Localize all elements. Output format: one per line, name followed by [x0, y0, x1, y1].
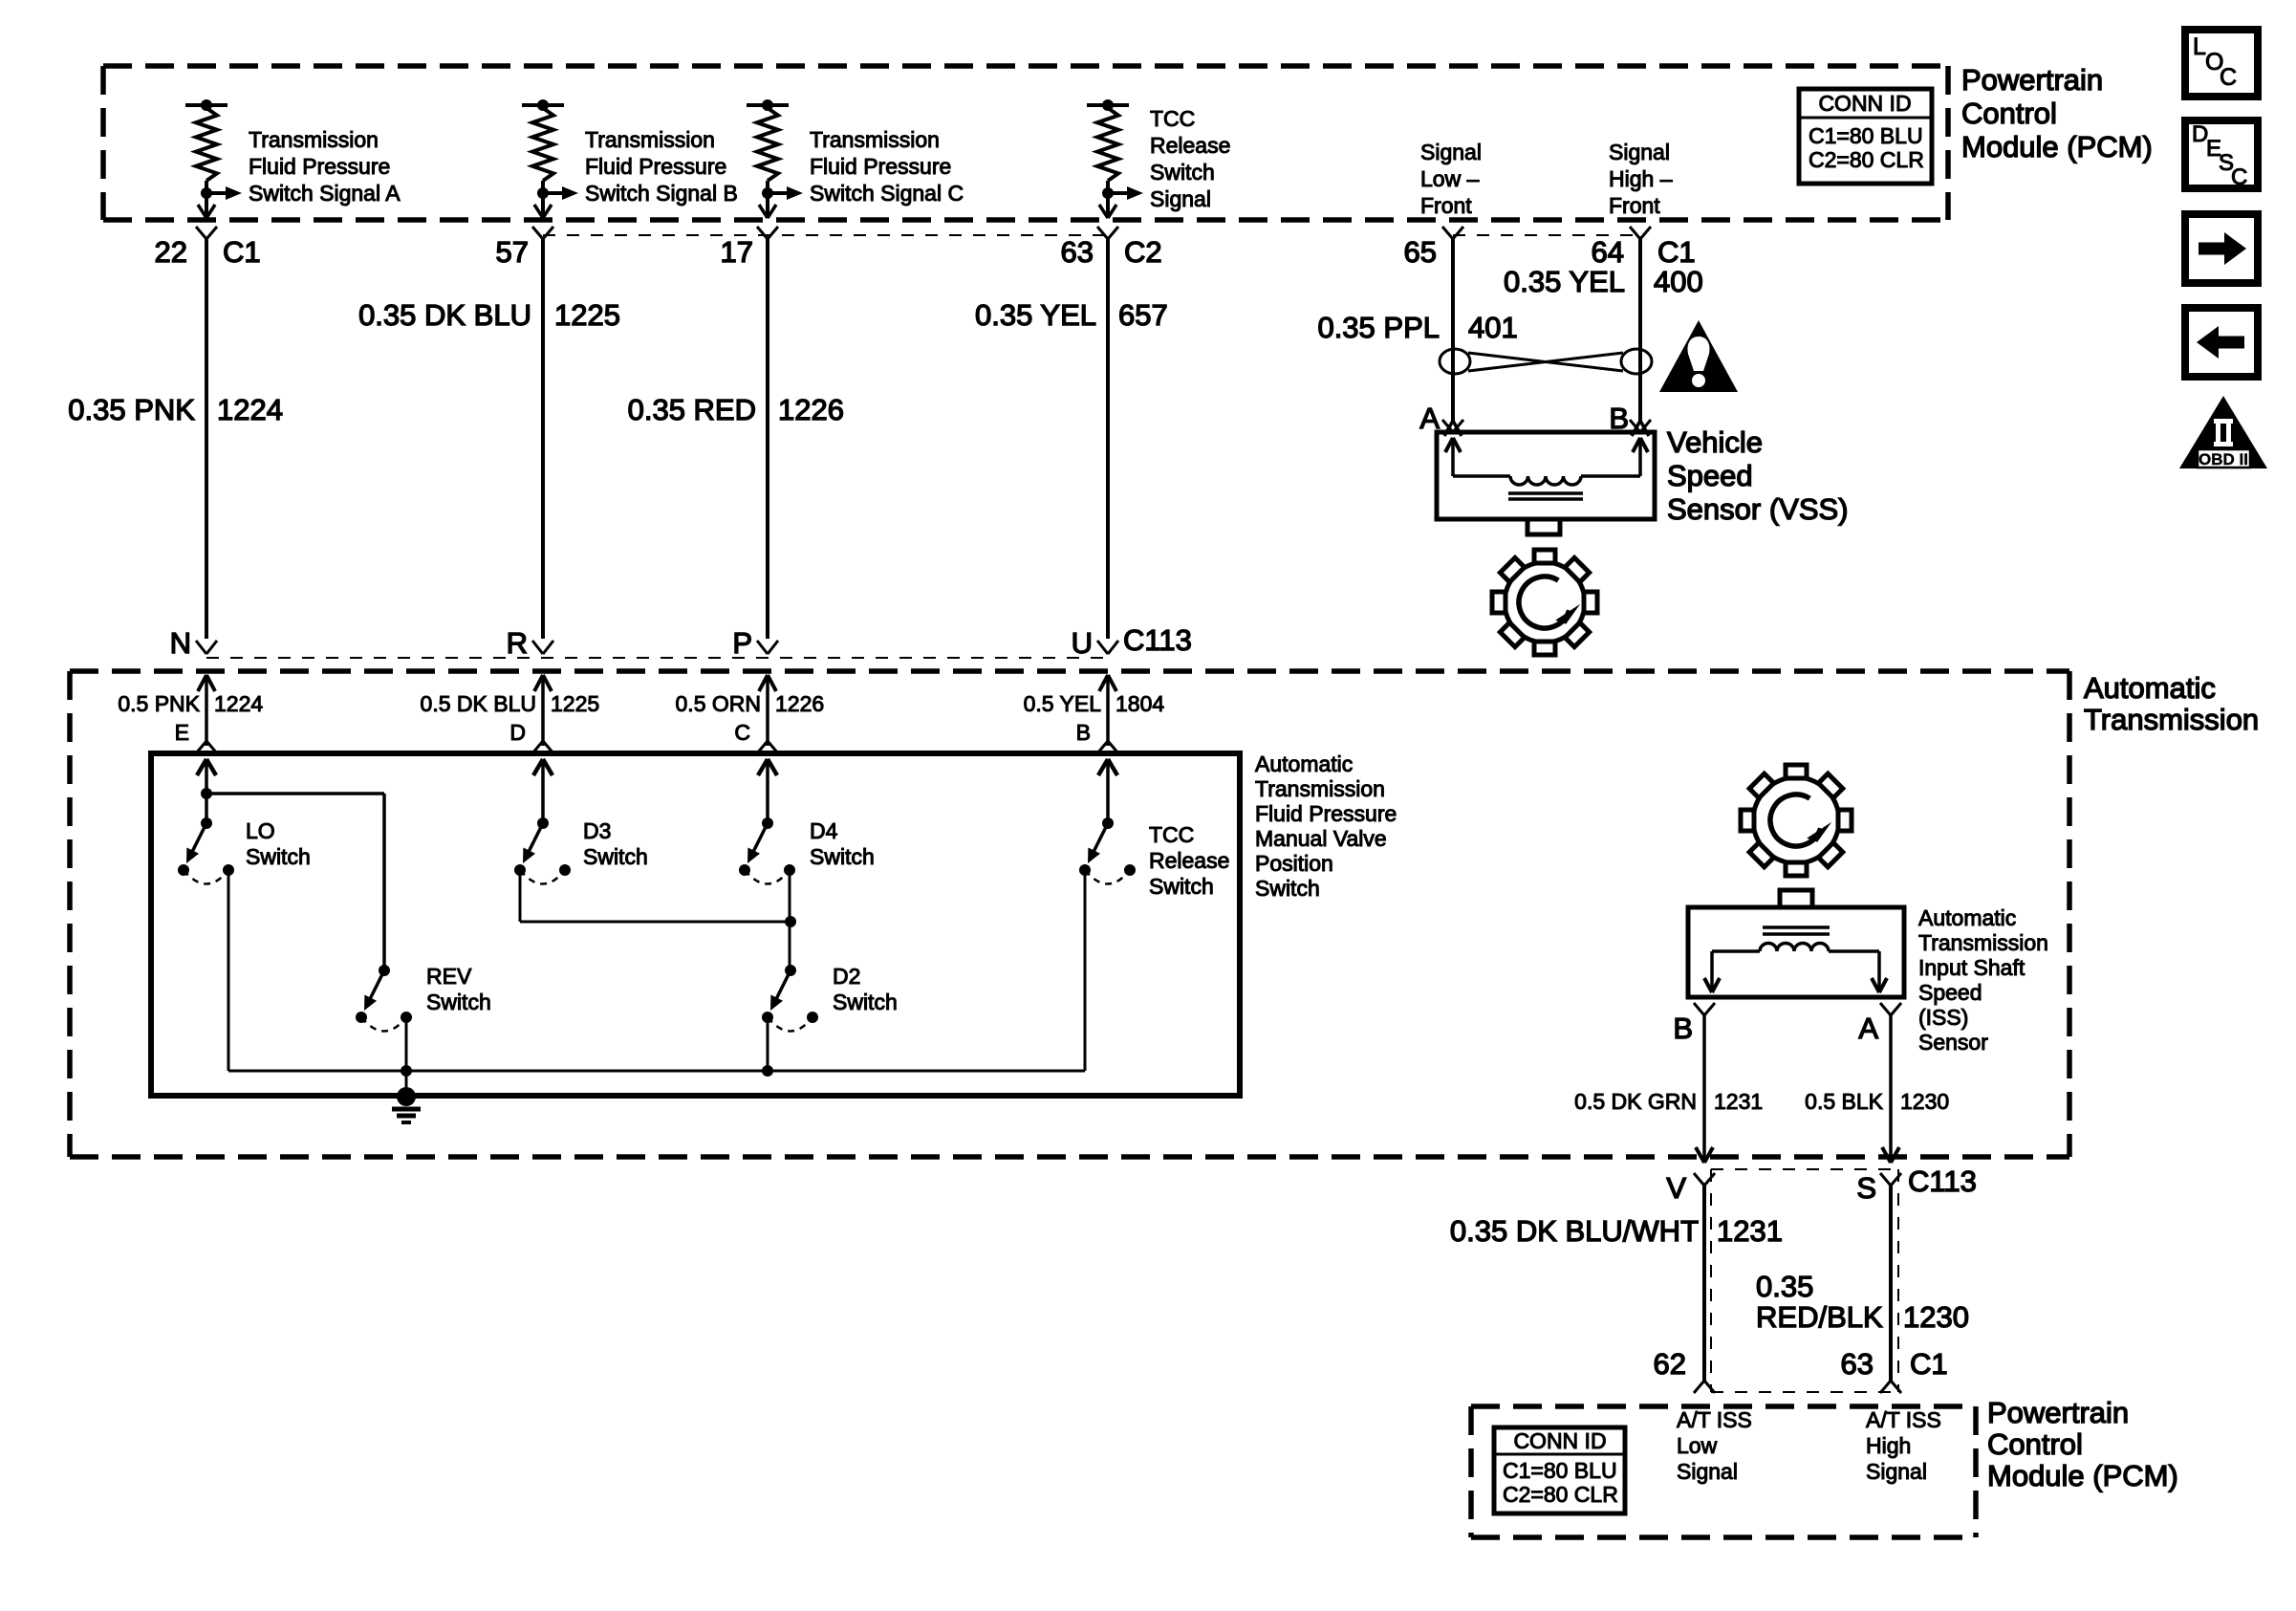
- connector C113 pin V fork: [1666, 1171, 1715, 1205]
- svg-text:0.5 DK BLU: 0.5 DK BLU: [421, 691, 536, 716]
- svg-text:P: P: [732, 626, 752, 660]
- wire 401 PPL (PCM 65 to VSS A): [1451, 239, 1455, 421]
- svg-text:Switch Signal A: Switch Signal A: [249, 181, 401, 206]
- icon DESC button: [2185, 120, 2258, 190]
- svg-text:C: C: [2231, 164, 2247, 190]
- svg-text:C: C: [2220, 64, 2237, 91]
- svg-text:Position: Position: [1255, 851, 1333, 876]
- label 0.35 YEL 657: [975, 298, 1168, 332]
- node junction REV/bus: [401, 1065, 412, 1077]
- svg-text:C113: C113: [1908, 1165, 1977, 1198]
- svg-text:Signal: Signal: [1150, 186, 1211, 211]
- label D2 Switch: [833, 964, 898, 1014]
- svg-text:1231: 1231: [1717, 1214, 1783, 1248]
- svg-text:Switch Signal C: Switch Signal C: [810, 181, 964, 206]
- svg-text:1226: 1226: [778, 393, 844, 426]
- wire LO to REV switch feed: [206, 792, 384, 795]
- svg-text:N: N: [170, 626, 191, 660]
- label A/T ISS High Signal: [1866, 1407, 1941, 1484]
- svg-text:Powertrain: Powertrain: [1987, 1396, 2129, 1429]
- svg-text:0.35 PPL: 0.35 PPL: [1317, 311, 1440, 344]
- svg-text:Signal: Signal: [1866, 1459, 1927, 1484]
- svg-text:Control: Control: [1987, 1427, 2083, 1461]
- wire entering switch assembly: [533, 759, 552, 824]
- svg-text:Switch: Switch: [246, 844, 311, 869]
- CONN ID table (bottom PCM): [1494, 1427, 1625, 1513]
- svg-text:D: D: [509, 720, 526, 745]
- svg-text:0.5 YEL: 0.5 YEL: [1024, 691, 1102, 716]
- svg-text:A/T ISS: A/T ISS: [1866, 1407, 1941, 1432]
- svg-text:Powertrain: Powertrain: [1961, 63, 2103, 97]
- reluctor gear icon (ISS): [1741, 765, 1852, 876]
- svg-text:Switch: Switch: [1150, 160, 1215, 185]
- label RD: [1150, 106, 1230, 211]
- svg-text:CONN ID: CONN ID: [1513, 1428, 1606, 1453]
- Vehicle Speed Sensor box: [1437, 432, 1655, 519]
- svg-text:D3: D3: [583, 818, 611, 843]
- resistor RD (PCM pull-up, TCC Signal): [1087, 99, 1143, 218]
- svg-text:Sensor: Sensor: [1918, 1030, 1988, 1055]
- svg-text:Low –: Low –: [1420, 166, 1480, 191]
- wire LO contact down: [227, 870, 230, 1071]
- label RA: [249, 127, 401, 206]
- connector C1 pin 22 fork: [155, 227, 261, 269]
- svg-text:S: S: [1856, 1171, 1876, 1205]
- svg-text:0.35 YEL: 0.35 YEL: [1504, 265, 1625, 298]
- svg-text:Signal: Signal: [1609, 140, 1670, 164]
- svg-text:1224: 1224: [214, 691, 263, 716]
- ISS internal pickup coil: [1704, 927, 1887, 992]
- switch D2: [762, 965, 818, 1032]
- label REV Switch: [426, 964, 491, 1014]
- connector pin 17 fork: [721, 227, 778, 269]
- Automatic Transmission Input Shaft Speed sensor box: [1688, 907, 1904, 997]
- switch REV: [356, 965, 412, 1032]
- svg-text:Transmission: Transmission: [1255, 776, 1385, 801]
- svg-text:Fluid Pressure: Fluid Pressure: [249, 154, 390, 179]
- svg-text:1230: 1230: [1900, 1089, 1949, 1114]
- icon arrow right button: [2185, 214, 2258, 283]
- resistor RB (PCM pull-up, Transmission Switch Signal B): [522, 99, 578, 218]
- label D3 Switch: [583, 818, 648, 869]
- switch D4: [739, 817, 795, 884]
- wire 1231 DK BLU/WHT: [1702, 1186, 1706, 1381]
- resistor RA (PCM pull-up, Transmission Switch Signal A): [185, 99, 242, 218]
- svg-text:1231: 1231: [1714, 1089, 1763, 1114]
- PCM label (top right): [1961, 63, 2153, 163]
- svg-text:Release: Release: [1149, 848, 1229, 873]
- resistor RC (PCM pull-up, Transmission Switch Signal C): [747, 99, 803, 218]
- svg-text:Module (PCM): Module (PCM): [1961, 130, 2153, 163]
- label Vehicle Speed Sensor (VSS): [1667, 425, 1849, 526]
- connector C113 pin N fork: [170, 626, 217, 660]
- wire entering switch assembly: [1098, 759, 1117, 824]
- svg-text:22: 22: [155, 235, 187, 269]
- switch D3: [514, 817, 571, 884]
- wire 1230 RED/BLK: [1889, 1186, 1893, 1381]
- svg-text:Transmission: Transmission: [1918, 930, 2048, 955]
- svg-text:Signal: Signal: [1420, 140, 1482, 164]
- wire 1231 DK GRN: [1696, 1015, 1713, 1163]
- svg-text:Control: Control: [1961, 97, 2057, 130]
- PCM module box (top Powertrain Control Module): [103, 66, 1948, 220]
- VSS pin A arrow/fork: [1442, 420, 1463, 436]
- svg-text:C1=80 BLU: C1=80 BLU: [1809, 123, 1923, 148]
- switch TCC release: [1079, 817, 1136, 884]
- svg-text:Transmission: Transmission: [810, 127, 940, 152]
- svg-text:A: A: [1858, 1012, 1878, 1045]
- wire 1224 PNK (PCM 22 to transmission N): [205, 239, 208, 639]
- wire 400 YEL (PCM 64 to VSS B): [1638, 239, 1642, 421]
- Automatic Transmission box: [70, 671, 2069, 1157]
- wire entering switch assembly: [758, 759, 777, 824]
- svg-text:Speed: Speed: [1918, 980, 1982, 1005]
- connector C113 dashed outline: [206, 657, 1108, 659]
- connector C2 dashed outline: [543, 234, 1108, 236]
- svg-text:Transmission: Transmission: [2084, 703, 2259, 736]
- svg-text:Front: Front: [1609, 193, 1660, 218]
- svg-text:Low: Low: [1677, 1433, 1718, 1458]
- label 0.5 BLK 1230: [1805, 1089, 1949, 1114]
- svg-text:D2: D2: [833, 964, 860, 989]
- svg-text:Switch: Switch: [810, 844, 875, 869]
- wire D2 contact down: [767, 1017, 769, 1071]
- svg-text:C: C: [734, 720, 750, 745]
- svg-text:1225: 1225: [554, 298, 620, 332]
- label 0.35 DK BLU/WHT 1231: [1450, 1214, 1783, 1248]
- label 0.35 YEL 400: [1504, 265, 1703, 298]
- svg-text:1226: 1226: [775, 691, 824, 716]
- svg-text:63: 63: [1061, 235, 1094, 269]
- switch LO: [178, 817, 234, 884]
- svg-text:Signal: Signal: [1677, 1459, 1738, 1484]
- svg-text:C1: C1: [1910, 1347, 1948, 1381]
- svg-text:U: U: [1072, 626, 1093, 660]
- svg-text:Automatic: Automatic: [2084, 671, 2216, 705]
- svg-text:400: 400: [1654, 265, 1703, 298]
- svg-text:C2: C2: [1124, 235, 1162, 269]
- connector C1 pin 64 fork: [1592, 227, 1696, 269]
- svg-text:1804: 1804: [1116, 691, 1164, 716]
- svg-text:V: V: [1666, 1171, 1686, 1205]
- wire 1225 DK BLU: [541, 239, 545, 639]
- svg-text:1225: 1225: [551, 691, 599, 716]
- wire 1225 into transmission (pin D): [421, 675, 600, 753]
- svg-text:0.35 YEL: 0.35 YEL: [975, 298, 1096, 332]
- connector pin 57 fork: [496, 227, 553, 269]
- connector C1 pin 62 fork: [1654, 1347, 1715, 1393]
- ground G at switch assembly case: [392, 1087, 421, 1122]
- svg-text:Switch: Switch: [583, 844, 648, 869]
- label 0.35 RED 1226: [628, 393, 844, 426]
- svg-text:Automatic: Automatic: [1918, 905, 2016, 930]
- svg-text:R: R: [507, 626, 528, 660]
- svg-text:CONN ID: CONN ID: [1818, 91, 1911, 116]
- label 0.35 PPL 401: [1317, 311, 1517, 344]
- wire REV contact to ground: [405, 1017, 408, 1097]
- label 0.35 RED/BLK 1230: [1756, 1270, 1969, 1334]
- svg-text:0.35 RED: 0.35 RED: [628, 393, 756, 426]
- svg-text:C2=80 CLR: C2=80 CLR: [1809, 147, 1924, 172]
- wire 1230 BLK: [1882, 1015, 1899, 1163]
- svg-text:C113: C113: [1123, 623, 1192, 657]
- svg-text:401: 401: [1468, 311, 1518, 344]
- svg-text:Fluid Pressure: Fluid Pressure: [1255, 801, 1397, 826]
- wire 1226 into transmission (pin C): [676, 675, 825, 753]
- label Automatic Transmission Input Shaft Speed (ISS) Sensor: [1918, 905, 2048, 1055]
- label RB: [585, 127, 738, 206]
- svg-text:TCC: TCC: [1149, 822, 1194, 847]
- svg-text:C1: C1: [1657, 235, 1696, 269]
- svg-text:64: 64: [1592, 235, 1624, 269]
- svg-text:Fluid Pressure: Fluid Pressure: [585, 154, 726, 179]
- PCM module box (bottom Powertrain Control Module): [1471, 1406, 1976, 1537]
- ISS pin B fork: [1673, 1003, 1715, 1045]
- svg-text:0.35: 0.35: [1756, 1270, 1813, 1303]
- wire common bus: [228, 1070, 1085, 1073]
- label LO Switch: [246, 818, 311, 869]
- svg-text:TCC: TCC: [1150, 106, 1195, 131]
- label TCC Release Switch: [1149, 822, 1229, 899]
- wire 1224 into transmission (pin E): [118, 675, 263, 753]
- connector C113 pin S fork: [1856, 1165, 1977, 1205]
- wire 657 YEL: [1106, 239, 1110, 639]
- svg-text:65: 65: [1404, 235, 1437, 269]
- svg-text:B: B: [1673, 1012, 1693, 1045]
- svg-text:17: 17: [721, 235, 753, 269]
- wire D4 contact down to D2: [789, 870, 791, 970]
- svg-text:0.5 BLK: 0.5 BLK: [1805, 1089, 1883, 1114]
- svg-text:0.35 DK BLU/WHT: 0.35 DK BLU/WHT: [1450, 1214, 1699, 1248]
- svg-text:LO: LO: [246, 818, 275, 843]
- svg-text:Input Shaft: Input Shaft: [1918, 955, 2025, 980]
- VSS mounting stub: [1527, 519, 1560, 534]
- node junction to REV feed: [201, 788, 212, 799]
- svg-text:Switch: Switch: [1255, 876, 1320, 901]
- svg-text:57: 57: [496, 235, 529, 269]
- svg-text:Vehicle: Vehicle: [1667, 425, 1763, 459]
- connector C2 pin 63 fork: [1061, 227, 1162, 269]
- svg-text:1224: 1224: [217, 393, 283, 426]
- label A/T ISS Low Signal: [1677, 1407, 1752, 1484]
- node junction D3/D4: [785, 916, 796, 927]
- ISS mounting stub: [1780, 890, 1812, 907]
- svg-text:1230: 1230: [1903, 1300, 1969, 1334]
- icon LOC button: [2185, 30, 2258, 97]
- svg-text:RED/BLK: RED/BLK: [1756, 1300, 1883, 1334]
- svg-text:REV: REV: [426, 964, 472, 989]
- svg-text:Transmission: Transmission: [585, 127, 715, 152]
- svg-text:62: 62: [1654, 1347, 1686, 1381]
- svg-text:Switch: Switch: [1149, 874, 1214, 899]
- svg-text:Switch Signal B: Switch Signal B: [585, 181, 738, 206]
- reluctor gear icon (VSS): [1492, 550, 1597, 655]
- svg-text:Speed: Speed: [1667, 459, 1753, 492]
- svg-text:0.5 ORN: 0.5 ORN: [676, 691, 761, 716]
- label 0.5 DK GRN 1231: [1574, 1089, 1763, 1114]
- svg-text:657: 657: [1118, 298, 1168, 332]
- svg-text:Switch: Switch: [833, 990, 898, 1014]
- svg-text:A/T ISS: A/T ISS: [1677, 1407, 1752, 1432]
- twisted pair symbol: [1440, 349, 1652, 374]
- svg-text:Switch: Switch: [426, 990, 491, 1014]
- svg-text:0.5 DK GRN: 0.5 DK GRN: [1574, 1089, 1697, 1114]
- svg-text:C1: C1: [223, 235, 261, 269]
- svg-text:B: B: [1076, 720, 1091, 745]
- connector C113 dashed outline (bottom): [1711, 1169, 1898, 1392]
- svg-text:0.35 DK BLU: 0.35 DK BLU: [358, 298, 531, 332]
- svg-text:C1=80 BLU: C1=80 BLU: [1503, 1458, 1617, 1483]
- svg-text:E: E: [175, 720, 189, 745]
- wire entering switch assembly: [197, 759, 216, 824]
- connector C1 pin 63 fork: [1841, 1347, 1948, 1393]
- label 0.35 DK BLU 1225: [358, 298, 620, 332]
- label Signal High - Front: [1609, 140, 1673, 218]
- label Automatic Transmission: [2084, 671, 2259, 736]
- icon OBD II triangle: [2179, 396, 2267, 468]
- svg-text:Sensor (VSS): Sensor (VSS): [1667, 492, 1849, 526]
- VSS internal pickup coil: [1445, 438, 1648, 499]
- svg-text:Manual Valve: Manual Valve: [1255, 826, 1387, 851]
- ISS pin A fork: [1858, 1003, 1901, 1045]
- svg-text:63: 63: [1841, 1347, 1874, 1381]
- svg-text:Module (PCM): Module (PCM): [1987, 1459, 2178, 1492]
- svg-text:D4: D4: [810, 818, 838, 843]
- connector C113 pin P fork: [732, 626, 778, 660]
- svg-text:C2=80 CLR: C2=80 CLR: [1503, 1482, 1618, 1507]
- svg-text:Front: Front: [1420, 193, 1472, 218]
- svg-text:Fluid Pressure: Fluid Pressure: [810, 154, 951, 179]
- wire 1804 into transmission (pin B): [1024, 675, 1165, 753]
- label Signal Low - Front: [1420, 140, 1482, 218]
- connector C113 pin R fork: [507, 626, 553, 660]
- CONN ID table (top PCM): [1799, 89, 1932, 184]
- Automatic Transmission Fluid Pressure Manual Valve Position Switch box: [151, 753, 1240, 1096]
- connector C1 dashed outline (VSS pins): [1453, 234, 1640, 236]
- label RC: [810, 127, 964, 206]
- svg-text:High –: High –: [1609, 166, 1673, 191]
- svg-text:OBD II: OBD II: [2199, 450, 2248, 468]
- label 0.35 PNK 1224: [68, 393, 283, 426]
- wire D3 contact to D4 branch: [519, 870, 522, 922]
- wire TCC contact down: [1084, 870, 1087, 1071]
- svg-text:(ISS): (ISS): [1918, 1005, 1968, 1030]
- svg-text:L: L: [2193, 33, 2206, 60]
- wire 1226 RED: [766, 239, 769, 639]
- label PCM (bottom): [1987, 1396, 2178, 1492]
- svg-text:Release: Release: [1150, 133, 1230, 158]
- icon arrow left button: [2185, 308, 2258, 377]
- label D4 Switch: [810, 818, 875, 869]
- svg-text:0.5 PNK: 0.5 PNK: [118, 691, 200, 716]
- node junction D2/bus: [762, 1065, 773, 1077]
- VSS pin B arrow/fork: [1630, 420, 1651, 436]
- connector C1 pin 65 fork: [1404, 227, 1463, 269]
- svg-text:Automatic: Automatic: [1255, 751, 1353, 776]
- svg-text:0.35 PNK: 0.35 PNK: [68, 393, 195, 426]
- label ATFP Manual Valve Position Switch: [1255, 751, 1397, 901]
- svg-text:Transmission: Transmission: [249, 127, 379, 152]
- connector C113 pin U fork: [1072, 623, 1192, 660]
- svg-text:High: High: [1866, 1433, 1911, 1458]
- warning triangle icon: [1659, 320, 1738, 392]
